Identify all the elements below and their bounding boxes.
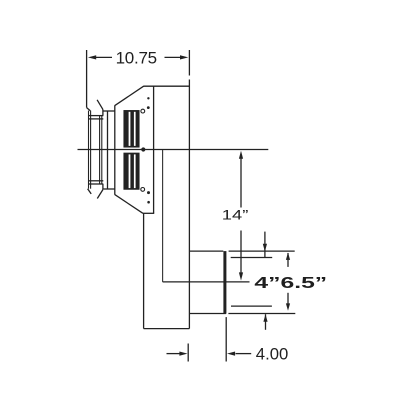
duct outer top line — [189, 250, 223, 252]
arrowhead 6.5 up (top) — [286, 253, 290, 260]
rivet dot lower b — [147, 201, 150, 204]
dimension 4 bottom stem — [265, 314, 267, 330]
louver top rectangle — [124, 111, 139, 147]
cap bottom edge — [143, 212, 154, 214]
pipe collar bottom slant — [88, 189, 92, 194]
dimension 14 stem lower — [240, 231, 242, 274]
cap top slant — [115, 86, 144, 105]
rivet dot lower a — [147, 191, 150, 194]
duct inner pipe top line — [231, 257, 273, 259]
arrowhead 4 down (top) — [263, 244, 267, 252]
dimension 4.00 left extension line — [187, 344, 189, 362]
arrowhead 10.75 left — [88, 55, 96, 59]
arrowhead 6.5 down (bottom) — [286, 303, 290, 310]
louver bottom slats — [124, 153, 139, 189]
dimension 10.75 right arrow — [165, 56, 182, 58]
screw circle upper — [141, 109, 145, 113]
snorkel bottom edge — [144, 328, 190, 330]
pipe collar top flange lines — [88, 115, 103, 117]
pipe collar bottom flange lines — [88, 180, 103, 182]
dimension 6.5 bottom stem — [287, 293, 289, 304]
dimension 14 stem upper — [240, 157, 242, 208]
cap top-left horizontal — [103, 110, 115, 112]
cap face inner edge — [153, 86, 155, 213]
snorkel hidden line (dashed) — [162, 150, 164, 282]
arrowhead 10.75 right — [180, 55, 188, 59]
svg-text:14”: 14” — [222, 206, 249, 222]
cap left wall — [107, 111, 109, 189]
louver top slats — [124, 111, 139, 147]
cone edge top slant — [97, 100, 103, 110]
dimension 10.75 right extension line — [188, 50, 190, 76]
dimension 6.5 top stem — [287, 253, 289, 267]
pipe collar inner wall (double line) — [99, 116, 101, 184]
arrowhead 4.00 right-pointing — [179, 352, 187, 356]
arrowhead 14 down — [239, 272, 243, 280]
screw circle lower — [141, 188, 145, 192]
cap bottom slant — [115, 195, 143, 214]
arrowhead 4 up (bottom) — [263, 314, 267, 322]
duct outer bottom line — [189, 313, 226, 315]
dimension 10.75 left extension line — [86, 50, 88, 108]
cap top edge — [143, 85, 189, 87]
duct center extension line — [163, 281, 250, 283]
cap right edge / duct left wall — [188, 80, 190, 329]
dimension 10.75 left arrow — [95, 56, 112, 58]
duct bold end cap — [223, 251, 226, 314]
louver panel left edge — [114, 105, 116, 195]
svg-text:10.75: 10.75 — [116, 48, 157, 67]
rivet dot upper b — [147, 106, 150, 109]
snorkel left wall — [143, 213, 145, 328]
dimension 4.00 right extension line — [225, 317, 227, 361]
cap bottom-left horizontal — [103, 188, 115, 190]
center line — [78, 149, 269, 151]
cone edge bottom slant — [102, 184, 104, 190]
dimension 4.00 right arrow stem — [236, 353, 252, 355]
center pivot dot — [141, 147, 145, 151]
pipe collar top slant — [87, 108, 91, 111]
dimension 4 top stem — [264, 232, 266, 258]
svg-text:4.00: 4.00 — [256, 345, 288, 364]
pipe collar outer left wall (double line) — [88, 111, 90, 189]
louver bottom rectangle — [124, 153, 139, 189]
svg-text:4”6.5”: 4”6.5” — [254, 275, 327, 292]
arrowhead 4.00 left-pointing — [227, 352, 235, 356]
dimension 4.00 left arrow stem — [167, 353, 181, 355]
duct inner pipe bottom line — [231, 305, 272, 307]
rivet dot upper a — [147, 97, 149, 99]
arrowhead 14 up — [239, 151, 243, 159]
